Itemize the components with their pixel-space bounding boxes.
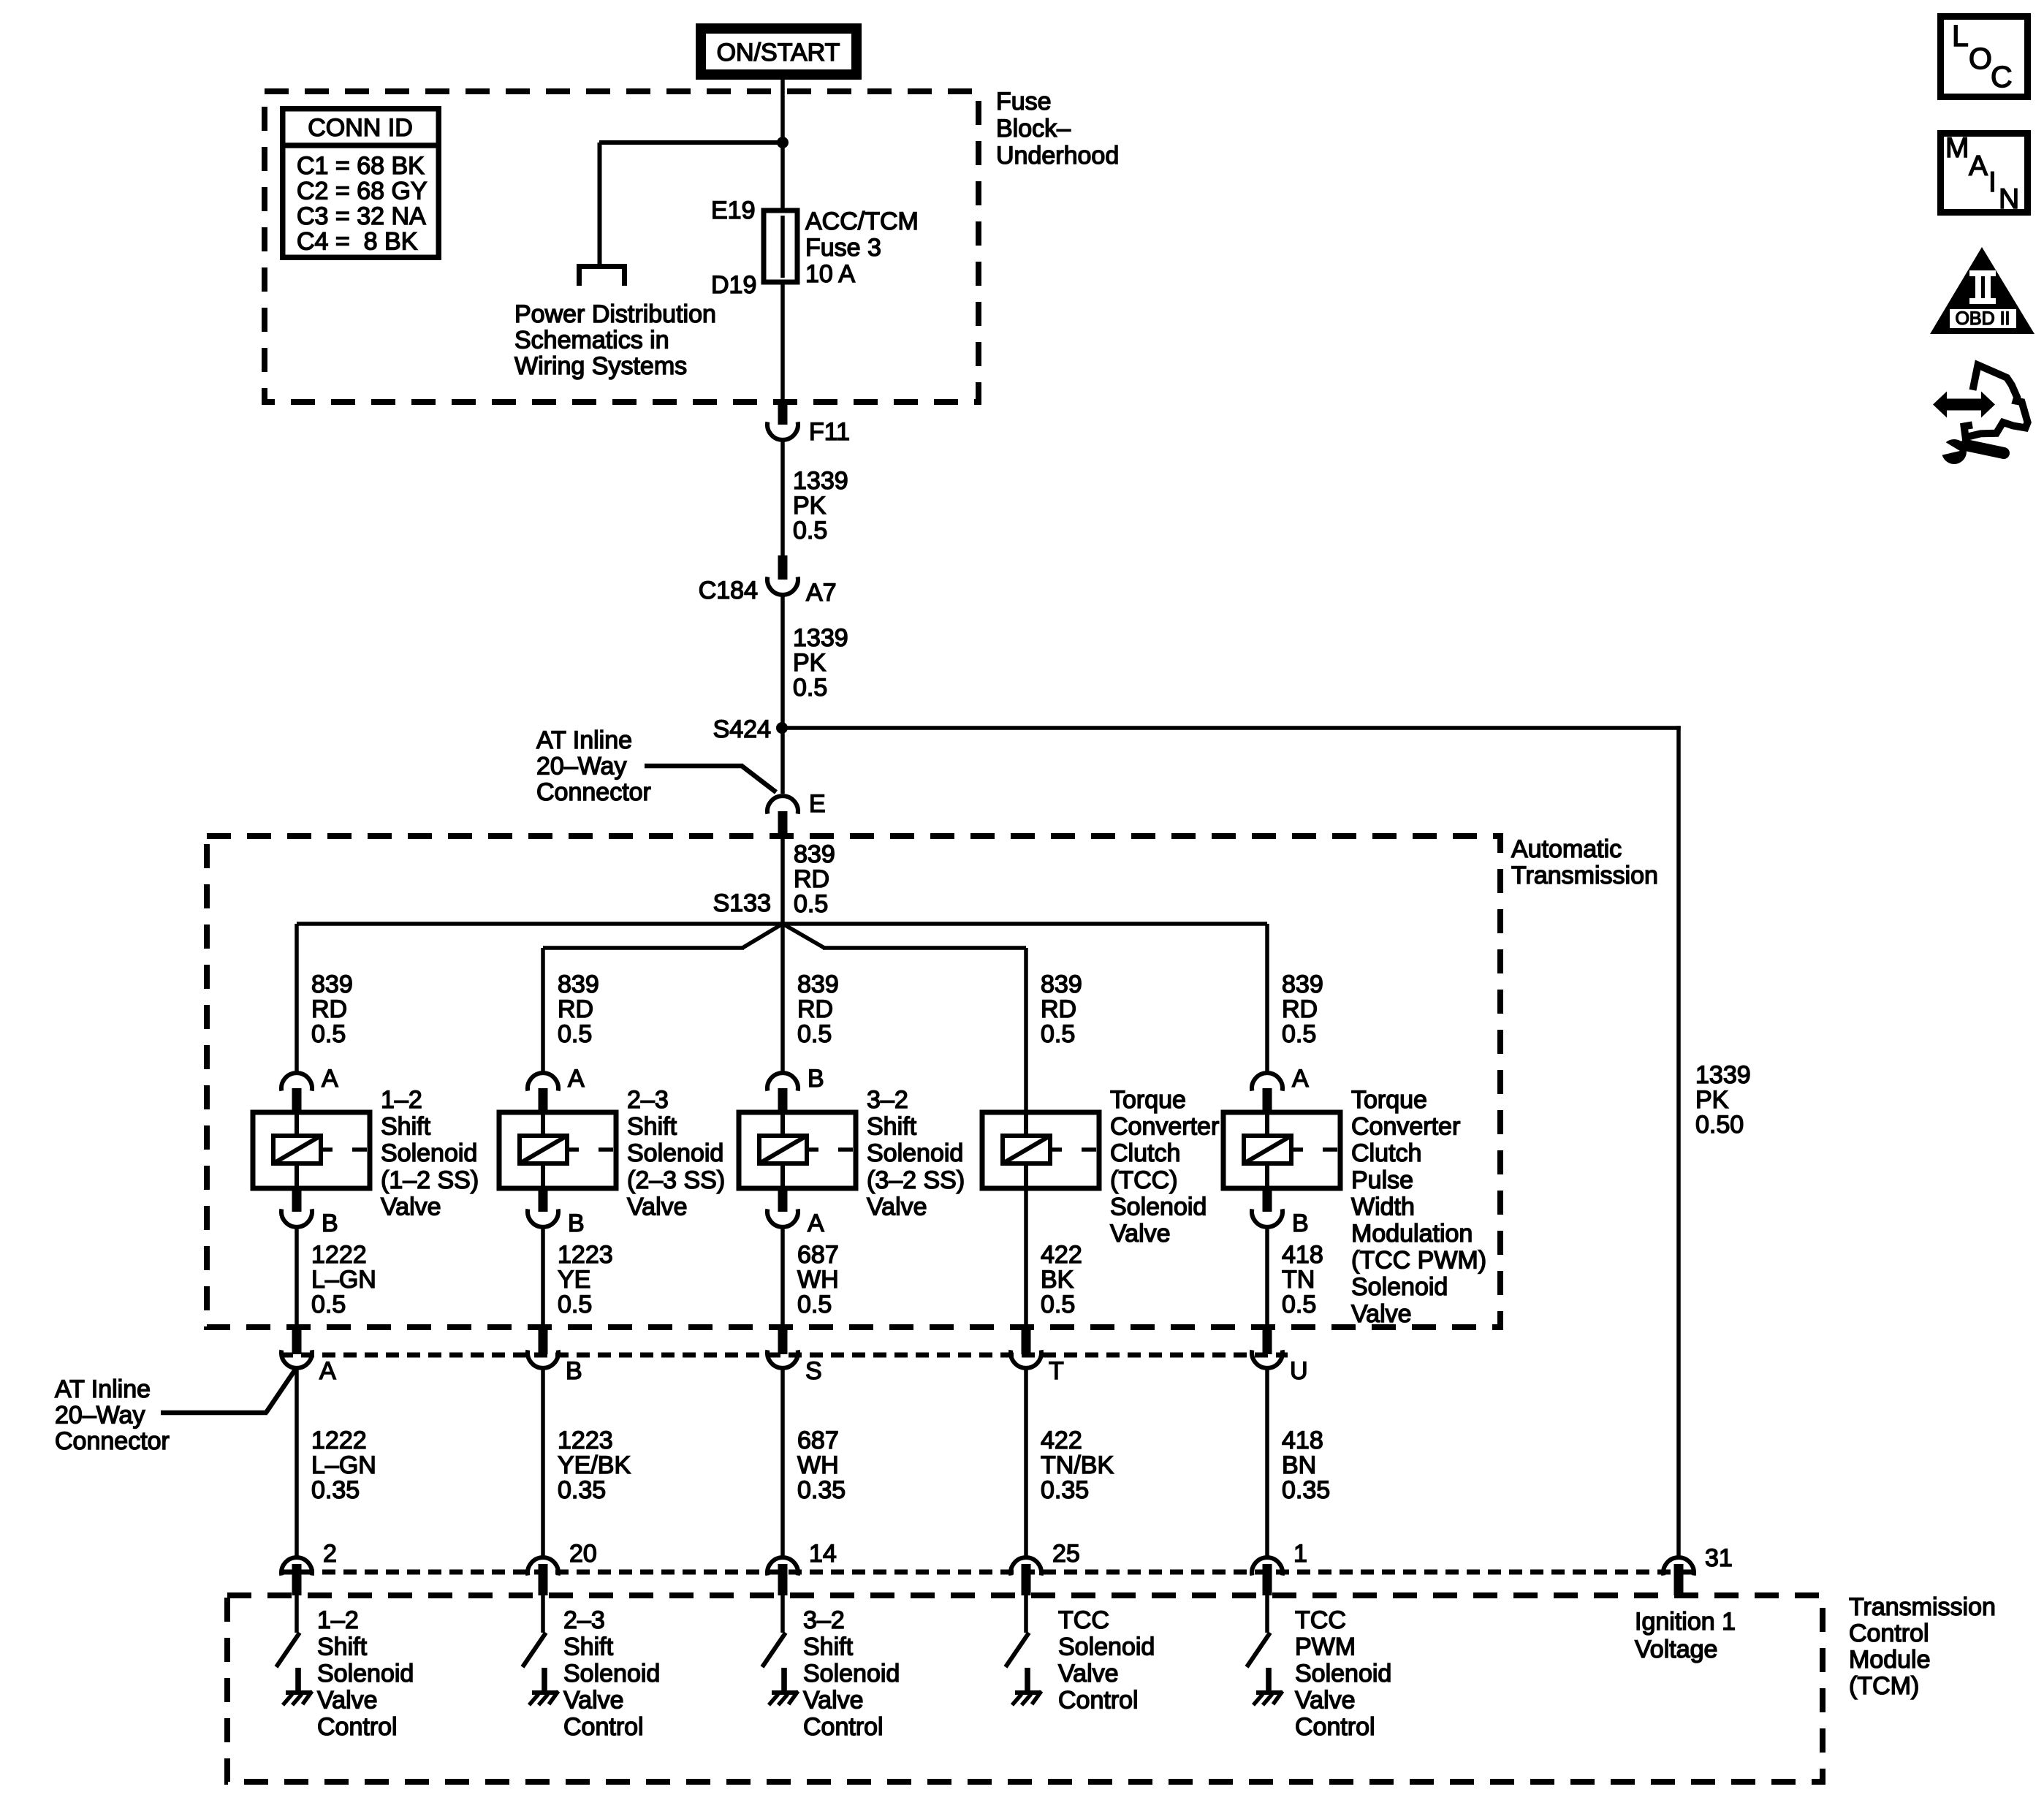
solenoid valve 2-3 shift solenoid [499, 1112, 616, 1188]
svg-text:RD: RD [311, 995, 347, 1023]
svg-text:RD: RD [1041, 995, 1076, 1023]
connector F11 [767, 400, 798, 440]
svg-text:TN: TN [1282, 1266, 1315, 1294]
svg-text:Fuse: Fuse [996, 88, 1052, 115]
svg-text:Solenoid: Solenoid [867, 1139, 963, 1167]
svg-text:Control: Control [803, 1713, 884, 1741]
svg-text:Clutch: Clutch [1110, 1139, 1180, 1167]
ground 3-2 shift solenoid [769, 1668, 798, 1705]
svg-text:TN/BK: TN/BK [1041, 1451, 1114, 1479]
connector C184 pin A7 [767, 555, 798, 595]
pin letter B [808, 1065, 824, 1093]
svg-text:Valve: Valve [1295, 1687, 1356, 1715]
svg-text:839: 839 [794, 840, 835, 868]
connector pin A of TCC PWM solenoid [1252, 1073, 1283, 1114]
wire TCC PWM solenoid to TCM [1265, 1367, 1269, 1557]
svg-text:0.5: 0.5 [794, 890, 828, 918]
svg-text:F11: F11 [809, 418, 850, 446]
wire S424 to TCM pin 31 (right side) [783, 726, 1681, 1557]
label automatic transmission [1511, 835, 1658, 889]
svg-text:Module: Module [1849, 1646, 1931, 1674]
svg-text:2–3: 2–3 [563, 1606, 605, 1634]
svg-text:Control: Control [563, 1713, 644, 1741]
svg-text:Shift: Shift [803, 1633, 854, 1661]
svg-text:C2 = 68 GY: C2 = 68 GY [297, 178, 428, 205]
connector pin A of 3-2 shift solenoid [767, 1188, 798, 1227]
svg-text:1–2: 1–2 [381, 1086, 422, 1114]
label AT inline lower [55, 1375, 170, 1455]
label ACC/TCM fuse [805, 208, 919, 288]
svg-text:O: O [1969, 42, 1992, 75]
svg-text:Torque: Torque [1110, 1086, 1186, 1114]
svg-text:Ignition 1: Ignition 1 [1635, 1608, 1736, 1636]
label TCM [1849, 1593, 1996, 1700]
svg-text:422: 422 [1041, 1427, 1082, 1454]
svg-text:RD: RD [558, 995, 593, 1023]
terminal letter S [805, 1357, 822, 1385]
svg-text:Shift: Shift [563, 1633, 614, 1661]
svg-text:1223: 1223 [558, 1427, 613, 1454]
AT inline connector terminal T [1011, 1324, 1041, 1368]
AT inline connector terminal S [767, 1324, 798, 1368]
connector pin B of 3-2 shift solenoid [767, 1073, 798, 1114]
svg-text:Solenoid: Solenoid [803, 1660, 900, 1687]
TCM connector pin 25 [1011, 1557, 1041, 1595]
transmission control module dashed box [227, 1595, 1823, 1782]
svg-text:Transmission: Transmission [1849, 1593, 1996, 1621]
AT inline connector terminal U [1252, 1324, 1283, 1368]
svg-text:Schematics in: Schematics in [514, 327, 669, 354]
svg-text:Solenoid: Solenoid [627, 1139, 723, 1167]
svg-text:0.5: 0.5 [793, 517, 827, 544]
ground 1-2 shift solenoid [283, 1668, 312, 1705]
wire branch 3-2 shift solenoid drop [780, 924, 785, 1074]
connector pin B of TCC PWM solenoid [1252, 1188, 1283, 1227]
svg-text:3–2: 3–2 [867, 1086, 908, 1114]
connector pin B of 1-2 shift solenoid [281, 1188, 312, 1227]
svg-text:YE: YE [558, 1266, 590, 1294]
pin letter A [568, 1065, 585, 1093]
svg-text:839: 839 [797, 971, 839, 998]
wire 2-3 shift solenoid to AT inline connector [541, 1226, 545, 1324]
svg-text:(3–2 SS): (3–2 SS) [867, 1166, 965, 1194]
svg-text:Pulse: Pulse [1351, 1166, 1413, 1194]
svg-text:N: N [1999, 183, 2019, 215]
leader line to terminal A [161, 1370, 295, 1415]
terminal letter T [1049, 1357, 1064, 1385]
svg-text:Solenoid: Solenoid [1110, 1193, 1207, 1220]
svg-text:Connector: Connector [536, 778, 651, 806]
svg-text:S: S [805, 1357, 822, 1385]
pin number 2 [323, 1540, 337, 1568]
svg-text:Wiring Systems: Wiring Systems [514, 352, 687, 380]
svg-text:Control: Control [1849, 1620, 1929, 1647]
svg-text:Valve: Valve [563, 1687, 624, 1715]
AT inline connector terminal B [528, 1324, 558, 1368]
svg-text:20–Way: 20–Way [55, 1402, 145, 1430]
label 1-2 shift solenoid valve [381, 1086, 479, 1220]
ground TCC solenoid [1012, 1668, 1041, 1705]
svg-text:Torque: Torque [1351, 1086, 1427, 1114]
AT inline connector dashed line [280, 1353, 1288, 1358]
wire label 1223 YE/BK 0.35 2-3 shift solenoid [558, 1427, 631, 1504]
wire TCM pin 2 to switch [295, 1595, 299, 1633]
wire branch to power distribution [598, 140, 783, 264]
label F11 [809, 418, 850, 446]
svg-text:D19: D19 [711, 271, 756, 299]
svg-text:Width: Width [1351, 1193, 1415, 1220]
label C184 [699, 577, 758, 604]
svg-text:0.35: 0.35 [1282, 1476, 1330, 1504]
TCM connector pin 14 [767, 1557, 798, 1595]
svg-text:I: I [1988, 167, 1996, 198]
svg-text:0.5: 0.5 [311, 1020, 346, 1048]
svg-text:L–GN: L–GN [311, 1451, 376, 1479]
label TCC solenoid valve [1110, 1086, 1219, 1248]
pin number 25 [1052, 1540, 1080, 1568]
svg-text:Connector: Connector [55, 1427, 170, 1455]
wire label 839 RD 0.5 TCC PWM solenoid [1282, 971, 1323, 1048]
svg-text:Valve: Valve [867, 1193, 927, 1220]
svg-text:Control: Control [1295, 1713, 1375, 1741]
power distribution connector staple [580, 267, 625, 286]
svg-text:Block–: Block– [996, 115, 1071, 143]
svg-text:839: 839 [1282, 971, 1323, 998]
diagonal to branch 2 [543, 924, 783, 950]
wire TCC solenoid to AT inline connector [1024, 1188, 1028, 1324]
junction dot on main wire [777, 137, 789, 148]
connector pin A of 2-3 shift solenoid [528, 1073, 558, 1114]
svg-text:RD: RD [794, 865, 829, 893]
TCM connector pin 2 [281, 1557, 312, 1595]
splice S424 [776, 722, 788, 734]
svg-text:839: 839 [1041, 971, 1082, 998]
svg-text:A: A [319, 1357, 336, 1385]
label E [809, 790, 826, 818]
svg-text:0.5: 0.5 [797, 1291, 832, 1318]
pin number 31 [1705, 1544, 1733, 1572]
wire label 839 RD 0.5 1-2 shift solenoid [311, 971, 353, 1048]
svg-text:0.35: 0.35 [797, 1476, 846, 1504]
svg-text:Modulation: Modulation [1351, 1220, 1473, 1248]
svg-text:PK: PK [1695, 1086, 1729, 1114]
svg-text:1: 1 [1293, 1540, 1307, 1568]
label TCC solenoid valve control [1058, 1606, 1155, 1715]
svg-text:AT Inline: AT Inline [55, 1375, 151, 1403]
wire label 1339 PK 0.50 [1695, 1061, 1751, 1139]
terminal letter B [566, 1357, 582, 1385]
wire S424 to E [780, 728, 785, 794]
svg-text:20–Way: 20–Way [536, 753, 626, 781]
svg-text:0.35: 0.35 [1041, 1476, 1089, 1504]
svg-text:Valve: Valve [1058, 1660, 1119, 1687]
wire label 1339 PK 0.5 upper [793, 467, 848, 544]
wire TCC PWM solenoid to AT inline connector [1265, 1226, 1269, 1324]
svg-text:M: M [1945, 132, 1969, 164]
svg-text:C4 = 8 BK: C4 = 8 BK [297, 228, 418, 256]
svg-text:S133: S133 [713, 889, 771, 917]
svg-text:WH: WH [797, 1451, 839, 1479]
solenoid valve TCC solenoid [982, 1112, 1099, 1188]
svg-text:Control: Control [1058, 1687, 1139, 1715]
svg-text:Solenoid: Solenoid [381, 1139, 477, 1167]
svg-text:Power Distribution: Power Distribution [514, 300, 716, 328]
svg-text:10 A: 10 A [805, 260, 855, 288]
svg-text:Valve: Valve [317, 1687, 378, 1715]
fuse ACC/TCM Fuse 3 10A [764, 210, 797, 282]
svg-text:Control: Control [317, 1713, 398, 1741]
svg-text:B: B [568, 1210, 585, 1237]
svg-text:ON/START: ON/START [717, 39, 840, 67]
wire TCM pin 20 to switch [541, 1595, 545, 1633]
svg-text:BN: BN [1282, 1451, 1316, 1479]
svg-text:1222: 1222 [311, 1241, 367, 1269]
svg-text:20: 20 [569, 1540, 597, 1568]
svg-text:Valve: Valve [803, 1687, 864, 1715]
wire 3-2 shift solenoid to AT inline connector [780, 1226, 785, 1324]
wire branch TCC PWM solenoid drop [1265, 924, 1269, 1074]
wire 1-2 shift solenoid to AT inline connector [295, 1226, 299, 1324]
pin letter B [322, 1210, 338, 1237]
wire branch 1-2 shift solenoid drop [295, 924, 299, 1074]
label S424 [713, 715, 771, 743]
service icon housing outline [1964, 365, 2028, 437]
connector pin B of 2-3 shift solenoid [528, 1188, 558, 1227]
svg-text:C: C [1991, 60, 2013, 94]
diagonal to branch 4 [783, 924, 1026, 950]
svg-text:E19: E19 [711, 197, 756, 224]
label S133 [713, 889, 771, 917]
wire label 1339 PK 0.5 lower [793, 624, 848, 702]
svg-text:1339: 1339 [1695, 1061, 1751, 1089]
svg-text:AT Inline: AT Inline [536, 726, 632, 754]
solenoid valve TCC PWM solenoid [1223, 1112, 1340, 1188]
svg-text:1339: 1339 [793, 467, 848, 495]
svg-text:2–3: 2–3 [627, 1086, 669, 1114]
ground TCC PWM solenoid [1253, 1668, 1283, 1705]
svg-text:0.35: 0.35 [311, 1476, 360, 1504]
svg-text:A: A [568, 1065, 585, 1093]
svg-text:Fuse 3: Fuse 3 [805, 234, 881, 262]
svg-text:0.5: 0.5 [1041, 1020, 1075, 1048]
service icon double arrow [1933, 392, 1995, 418]
pin letter A [1292, 1065, 1309, 1093]
svg-text:ACC/TCM: ACC/TCM [805, 208, 919, 235]
svg-text:A: A [1969, 151, 1988, 182]
wire branch 2-3 shift solenoid drop [541, 948, 545, 1074]
terminal letter A [319, 1357, 336, 1385]
svg-text:B: B [1292, 1210, 1309, 1237]
svg-text:(2–3 SS): (2–3 SS) [627, 1166, 725, 1194]
wire E to S133 [780, 838, 785, 924]
wire label 1223 YE 0.5 2-3 shift solenoid [558, 1241, 613, 1318]
svg-text:E: E [809, 790, 826, 818]
label ignition 1 voltage [1635, 1608, 1736, 1663]
label 3-2 shift solenoid valve [867, 1086, 965, 1220]
svg-text:CONN ID: CONN ID [308, 114, 413, 142]
OBD II icon [1930, 247, 2034, 334]
svg-text:0.5: 0.5 [311, 1291, 346, 1318]
wire TCC solenoid to TCM [1024, 1367, 1028, 1557]
pin number 20 [569, 1540, 597, 1568]
switch 2-3 shift solenoid control [523, 1633, 546, 1667]
svg-text:A: A [322, 1065, 338, 1093]
svg-text:0.5: 0.5 [797, 1020, 832, 1048]
svg-text:(TCM): (TCM) [1849, 1672, 1919, 1700]
svg-text:(TCC): (TCC) [1110, 1166, 1178, 1194]
label E19 [711, 197, 756, 224]
svg-text:TCC: TCC [1295, 1606, 1346, 1634]
svg-text:(TCC PWM): (TCC PWM) [1351, 1247, 1486, 1275]
terminal letter U [1290, 1357, 1308, 1385]
svg-text:L–GN: L–GN [311, 1266, 376, 1294]
splice S133 bus [297, 922, 1267, 926]
svg-text:B: B [322, 1210, 338, 1237]
switch 3-2 shift solenoid control [762, 1633, 786, 1667]
wire branch TCC solenoid drop [1024, 948, 1028, 1114]
svg-text:Valve: Valve [1110, 1220, 1171, 1248]
svg-text:0.5: 0.5 [1282, 1291, 1316, 1318]
svg-text:C3 = 32 NA: C3 = 32 NA [297, 202, 426, 230]
connector E [767, 796, 798, 838]
svg-text:0.5: 0.5 [793, 674, 827, 702]
fuse block underhood dashed box [265, 91, 979, 402]
pin letter B [1292, 1210, 1309, 1237]
svg-text:C1 = 68 BK: C1 = 68 BK [297, 152, 425, 180]
wire 2-3 shift solenoid to TCM [541, 1367, 545, 1557]
solenoid valve 3-2 shift solenoid [739, 1112, 856, 1188]
svg-text:WH: WH [797, 1266, 839, 1294]
svg-text:839: 839 [558, 971, 599, 998]
TCM connector pin 1 [1252, 1557, 1283, 1595]
wire label 418 BN 0.35 TCC PWM solenoid [1282, 1427, 1330, 1504]
svg-text:3–2: 3–2 [803, 1606, 845, 1634]
label A7 [806, 579, 837, 607]
wire TCM pin 25 to switch [1024, 1595, 1028, 1633]
CONN ID table [280, 109, 441, 258]
svg-text:OBD II: OBD II [1955, 308, 2010, 329]
svg-text:687: 687 [797, 1241, 839, 1269]
svg-text:Underhood: Underhood [996, 142, 1119, 170]
MAIN icon [1941, 132, 2028, 215]
wire label 839 RD 0.5 3-2 shift solenoid [797, 971, 839, 1048]
svg-text:BK: BK [1041, 1266, 1074, 1294]
svg-text:Solenoid: Solenoid [1295, 1660, 1391, 1687]
svg-text:687: 687 [797, 1427, 839, 1454]
label TCC PWM solenoid valve [1351, 1086, 1486, 1328]
pin letter A [808, 1210, 824, 1237]
wire label 687 WH 0.35 3-2 shift solenoid [797, 1427, 846, 1504]
wire label 839 RD 0.5 2-3 shift solenoid [558, 971, 599, 1048]
svg-text:S424: S424 [713, 715, 771, 743]
TCM connector dashed line [280, 1570, 1695, 1575]
switch TCC solenoid control [1006, 1633, 1029, 1667]
pin number 1 [1293, 1540, 1307, 1568]
svg-text:Shift: Shift [381, 1113, 431, 1141]
label D19 [711, 271, 756, 299]
wire C184 to S424 [780, 593, 785, 728]
svg-text:2: 2 [323, 1540, 337, 1568]
pin letter B [568, 1210, 585, 1237]
svg-text:Converter: Converter [1110, 1113, 1219, 1141]
svg-text:T: T [1049, 1357, 1064, 1385]
svg-text:Voltage: Voltage [1635, 1636, 1717, 1663]
TCM connector pin 20 [528, 1557, 558, 1595]
svg-text:0.5: 0.5 [558, 1291, 592, 1318]
label AT inline upper [536, 726, 651, 806]
svg-text:1339: 1339 [793, 624, 848, 652]
wire 3-2 shift solenoid to TCM [780, 1367, 785, 1557]
svg-text:0.5: 0.5 [1041, 1291, 1075, 1318]
svg-text:Valve: Valve [627, 1193, 688, 1220]
svg-text:(1–2 SS): (1–2 SS) [381, 1166, 479, 1194]
leader line to connector E [645, 764, 776, 792]
svg-text:Solenoid: Solenoid [1351, 1273, 1448, 1301]
svg-text:0.50: 0.50 [1695, 1111, 1744, 1139]
wire ON/START to fuse block [780, 80, 785, 401]
svg-text:1222: 1222 [311, 1427, 367, 1454]
svg-text:TCC: TCC [1058, 1606, 1109, 1634]
TCM connector pin 31 [1663, 1557, 1694, 1595]
wire 1-2 shift solenoid to TCM [295, 1367, 299, 1557]
svg-text:L: L [1952, 19, 1969, 53]
service icon wrench [1934, 438, 2004, 464]
LOC icon [1941, 17, 2028, 97]
wire label 1222 L&#8211;GN 0.35 1-2 shift solenoid [311, 1427, 376, 1504]
svg-text:839: 839 [311, 971, 353, 998]
label power distribution [514, 300, 716, 380]
svg-text:Valve: Valve [381, 1193, 441, 1220]
svg-text:Shift: Shift [867, 1113, 917, 1141]
svg-text:RD: RD [1282, 995, 1318, 1023]
svg-text:418: 418 [1282, 1241, 1323, 1269]
pin letter A [322, 1065, 338, 1093]
svg-text:A7: A7 [806, 579, 837, 607]
svg-text:25: 25 [1052, 1540, 1080, 1568]
svg-text:A: A [808, 1210, 824, 1237]
svg-text:U: U [1290, 1357, 1308, 1385]
svg-text:Shift: Shift [627, 1113, 677, 1141]
connector pin A of 1-2 shift solenoid [281, 1073, 312, 1114]
label 2-3 shift solenoid valve [627, 1086, 725, 1220]
svg-text:Clutch: Clutch [1351, 1139, 1421, 1167]
label 3-2 shift solenoid valve control [803, 1606, 900, 1741]
pin number 14 [809, 1540, 837, 1568]
wire label 687 WH 0.5 3-2 shift solenoid [797, 1241, 839, 1318]
svg-text:RD: RD [797, 995, 833, 1023]
svg-text:0.5: 0.5 [558, 1020, 592, 1048]
label fuse block [996, 88, 1119, 170]
svg-text:Solenoid: Solenoid [563, 1660, 660, 1687]
wire label 839 RD 0.5 TCC solenoid [1041, 971, 1082, 1048]
svg-text:1223: 1223 [558, 1241, 613, 1269]
svg-text:0.5: 0.5 [1282, 1020, 1316, 1048]
svg-text:Solenoid: Solenoid [1058, 1633, 1155, 1661]
switch TCC PWM solenoid control [1247, 1633, 1270, 1667]
svg-text:Valve: Valve [1351, 1300, 1412, 1328]
ON/START box [701, 29, 856, 75]
svg-text:Solenoid: Solenoid [317, 1660, 414, 1687]
wire label 422 TN/BK 0.35 TCC solenoid [1041, 1427, 1114, 1504]
svg-text:PWM: PWM [1295, 1633, 1356, 1661]
svg-text:1–2: 1–2 [317, 1606, 359, 1634]
svg-text:Automatic: Automatic [1511, 835, 1622, 863]
ground 2-3 shift solenoid [529, 1668, 558, 1705]
wire label 1222 L&#8211;GN 0.5 1-2 shift solenoid [311, 1241, 376, 1318]
svg-text:Transmission: Transmission [1511, 862, 1658, 889]
svg-text:422: 422 [1041, 1241, 1082, 1269]
svg-text:PK: PK [793, 649, 827, 677]
